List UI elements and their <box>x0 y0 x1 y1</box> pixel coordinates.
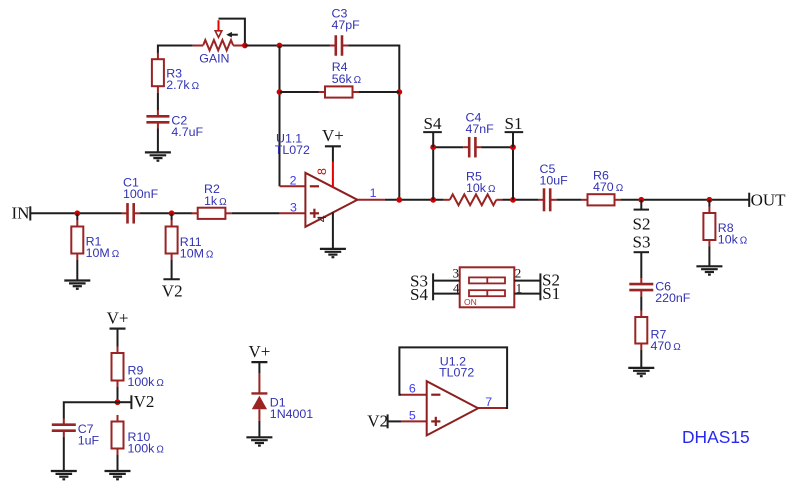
wire <box>708 247 710 267</box>
svg-text:7: 7 <box>485 395 492 409</box>
svg-text:470 Ω: 470 Ω <box>651 339 682 353</box>
wire <box>621 199 749 201</box>
wire <box>76 213 78 220</box>
wire <box>433 146 463 148</box>
junction <box>74 210 80 216</box>
capacitor C5 <box>538 188 556 211</box>
power V+ (R9) <box>107 308 129 328</box>
capacitor C6 <box>629 278 653 296</box>
port V2 <box>162 279 183 300</box>
wire <box>482 146 514 148</box>
ground <box>145 152 171 160</box>
svg-text:S4: S4 <box>424 114 442 133</box>
svg-text:1: 1 <box>370 186 377 200</box>
svg-text:47nF: 47nF <box>466 122 495 136</box>
junction <box>277 89 283 95</box>
svg-text:S1: S1 <box>505 114 523 133</box>
wire <box>140 212 192 214</box>
op-amp U1.1 <box>280 173 385 227</box>
svg-text:10M Ω: 10M Ω <box>86 246 120 260</box>
wire <box>280 91 319 93</box>
svg-text:V+: V+ <box>248 342 270 361</box>
svg-text:1N4001: 1N4001 <box>270 407 314 421</box>
wire <box>171 260 173 279</box>
label C2 <box>171 114 203 140</box>
label C1 <box>123 176 159 202</box>
op-amp U1.2 <box>401 381 505 435</box>
U1.2 labels <box>439 354 474 379</box>
port V2 (U1.2) <box>367 412 401 431</box>
resistor R9 <box>112 347 124 388</box>
wire <box>385 199 444 201</box>
svg-text:10uF: 10uF <box>540 174 569 188</box>
svg-text:3: 3 <box>453 266 460 281</box>
U1.2 feedback wire <box>399 347 507 408</box>
label D1 <box>270 396 314 422</box>
resistor R3 <box>152 53 164 93</box>
svg-text:GAIN: GAIN <box>199 52 229 66</box>
label R3 <box>166 66 199 92</box>
wire <box>348 45 399 47</box>
label R7 <box>651 327 682 353</box>
port IN <box>12 204 31 223</box>
label R1 <box>86 234 120 260</box>
svg-text:56k Ω: 56k Ω <box>332 72 362 86</box>
wire <box>171 213 173 220</box>
wire <box>503 199 539 201</box>
ground <box>696 266 722 274</box>
potentiometer GAIN <box>193 20 245 50</box>
resistor R11 <box>166 220 178 260</box>
junction <box>396 89 402 95</box>
resistor R8 <box>703 207 715 247</box>
wire <box>63 437 65 471</box>
gain arrow <box>226 32 238 38</box>
capacitor C2 <box>146 110 169 128</box>
svg-text:S3: S3 <box>633 232 651 251</box>
junction <box>638 197 644 203</box>
svg-text:TL072: TL072 <box>439 366 474 380</box>
wire <box>117 455 119 471</box>
svg-text:IN: IN <box>12 204 30 223</box>
svg-text:8: 8 <box>315 168 329 175</box>
label R6 <box>593 168 624 194</box>
svg-text:V+: V+ <box>322 126 344 145</box>
wire <box>708 200 710 207</box>
wire <box>76 260 78 281</box>
capacitor C4 <box>463 137 481 158</box>
junction <box>115 399 121 405</box>
ground <box>105 471 131 479</box>
svg-text:S2: S2 <box>633 215 651 234</box>
DIP switch SW1 <box>460 267 515 307</box>
pin 8 power wire <box>332 161 334 188</box>
svg-text:V2: V2 <box>367 412 388 431</box>
resistor R6 <box>581 194 621 205</box>
wire <box>556 199 581 201</box>
junction <box>396 197 402 203</box>
junction <box>430 144 436 150</box>
wire <box>332 146 334 161</box>
ground <box>628 368 654 376</box>
wire <box>512 147 514 200</box>
junction <box>242 43 248 49</box>
label C4 <box>466 110 495 136</box>
wire <box>30 212 121 214</box>
ground <box>64 281 90 289</box>
svg-text:V2: V2 <box>134 392 155 411</box>
power V+ (D1) <box>248 342 270 362</box>
svg-text:10M Ω: 10M Ω <box>180 247 214 261</box>
wire <box>258 421 260 437</box>
port S3 (net stub) <box>633 232 651 252</box>
U1.1 labels <box>275 132 310 157</box>
svg-text:220nF: 220nF <box>655 291 691 305</box>
port S2 (net stub) <box>633 200 651 234</box>
label C3 <box>332 6 361 32</box>
wire <box>433 293 460 295</box>
label R10 <box>128 430 165 456</box>
wire <box>157 129 159 153</box>
svg-text:TL072: TL072 <box>275 143 310 157</box>
diode D1 <box>251 373 267 421</box>
wire <box>64 402 118 418</box>
pin 4 wire <box>332 212 334 249</box>
power V+ (U1.1) <box>322 126 344 146</box>
port S4 <box>423 114 442 147</box>
svg-text:2: 2 <box>515 266 522 281</box>
label R8 <box>718 221 748 247</box>
svg-text:470 Ω: 470 Ω <box>593 180 624 194</box>
wiper loop wire <box>219 19 245 46</box>
wire <box>640 252 642 278</box>
resistor R1 <box>71 220 83 260</box>
svg-text:3: 3 <box>290 201 297 215</box>
resistor R5 <box>444 194 503 205</box>
wire <box>232 212 280 214</box>
wire <box>279 46 281 187</box>
ground <box>246 437 272 445</box>
junction <box>510 144 516 150</box>
capacitor C7 <box>52 419 76 437</box>
wire <box>158 45 193 47</box>
port S3/S4 bar (left) <box>432 273 434 300</box>
svg-text:5: 5 <box>409 408 416 422</box>
svg-text:100nF: 100nF <box>123 187 159 201</box>
svg-text:4: 4 <box>315 215 329 222</box>
svg-text:1k Ω: 1k Ω <box>204 194 227 208</box>
svg-text:47pF: 47pF <box>332 18 361 32</box>
port S2/S1 bar (right) <box>539 273 541 300</box>
svg-text:6: 6 <box>409 382 416 396</box>
label R11 <box>180 235 214 261</box>
wire <box>640 296 642 310</box>
svg-text:4.7uF: 4.7uF <box>171 125 203 139</box>
junction <box>277 43 283 49</box>
svg-text:100k Ω: 100k Ω <box>128 375 165 389</box>
port OUT <box>749 191 786 210</box>
wire <box>398 45 400 200</box>
wire <box>359 91 399 93</box>
resistor R2 <box>191 208 232 219</box>
resistor R4 <box>319 86 360 97</box>
ground <box>320 249 346 257</box>
resistor R7 <box>635 311 647 351</box>
svg-text:DHAS15: DHAS15 <box>682 427 750 447</box>
wire <box>245 45 331 47</box>
wire <box>433 280 460 282</box>
svg-text:100k Ω: 100k Ω <box>128 442 165 456</box>
wire <box>258 362 260 373</box>
svg-text:S4: S4 <box>410 285 428 304</box>
svg-text:ON: ON <box>464 297 477 307</box>
wire <box>640 350 642 368</box>
svg-text:10k Ω: 10k Ω <box>466 181 496 195</box>
svg-text:OUT: OUT <box>751 191 787 210</box>
capacitor C3 <box>330 35 348 56</box>
svg-text:2: 2 <box>290 174 297 188</box>
label C5 <box>540 162 569 188</box>
wire <box>432 147 434 200</box>
capacitor C1 <box>121 203 139 224</box>
svg-text:V+: V+ <box>107 308 129 327</box>
junction <box>169 210 175 216</box>
resistor R10 <box>112 415 124 455</box>
wire <box>514 280 540 282</box>
wire <box>514 293 540 295</box>
wire <box>157 45 159 54</box>
svg-text:1uF: 1uF <box>78 433 100 447</box>
junction <box>707 197 713 203</box>
wire <box>117 387 119 402</box>
port S1 <box>505 114 524 147</box>
svg-text:10k Ω: 10k Ω <box>718 233 748 247</box>
label R4 <box>332 60 362 86</box>
svg-text:S1: S1 <box>542 284 560 303</box>
junction <box>510 197 516 203</box>
label C6 <box>655 279 691 305</box>
port V2 (mid) <box>118 392 155 411</box>
label C7 <box>78 422 100 448</box>
label R5 <box>466 170 496 196</box>
svg-text:V2: V2 <box>162 282 183 301</box>
label R2 <box>204 182 227 208</box>
label R9 <box>128 364 165 390</box>
wire <box>157 93 159 111</box>
junction <box>430 197 436 203</box>
ground <box>51 471 77 479</box>
wire <box>117 329 119 347</box>
svg-text:2.7k Ω: 2.7k Ω <box>166 78 199 92</box>
